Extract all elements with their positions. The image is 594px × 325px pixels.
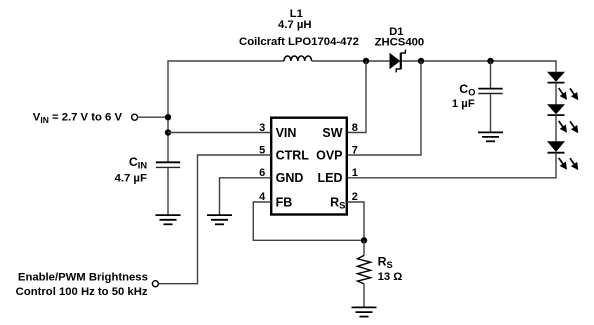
svg-text:3: 3 <box>259 122 265 134</box>
svg-text:VIN: VIN <box>276 126 297 140</box>
capacitor CO <box>478 89 502 94</box>
IC pin name GND <box>276 171 304 185</box>
svg-text:CO: CO <box>459 82 475 97</box>
wire VIN terminal to rail <box>138 116 168 118</box>
label D1 <box>389 26 403 38</box>
wire FB pin 4 loop <box>253 202 364 240</box>
terminal enable <box>152 281 158 287</box>
svg-text:7: 7 <box>352 144 358 156</box>
pin number 7 <box>352 144 358 156</box>
IC pin name RS <box>330 195 345 211</box>
wire SW pin 8 to top rail <box>347 61 366 133</box>
wire CIN bottom lead <box>167 168 169 215</box>
pin number 2 <box>352 191 358 203</box>
svg-text:13 Ω: 13 Ω <box>378 271 403 283</box>
wire LED2 to LED3 <box>555 115 557 141</box>
svg-text:8: 8 <box>352 122 358 134</box>
pin number 6 <box>259 167 265 179</box>
LED 3 <box>547 141 578 170</box>
pin number 5 <box>259 144 265 156</box>
pin number 3 <box>259 122 265 134</box>
svg-text:CIN: CIN <box>129 155 147 170</box>
wire diode to LED string top <box>402 61 556 72</box>
svg-text:LED: LED <box>318 171 343 185</box>
svg-text:1: 1 <box>352 167 358 179</box>
svg-text:RS: RS <box>330 195 345 211</box>
label enable line 2 <box>16 286 148 298</box>
label RS value 13 ohm <box>378 271 403 283</box>
wire inductor to diode <box>312 60 390 62</box>
junction dot VIN <box>165 114 171 120</box>
wire CO bottom lead <box>490 94 492 132</box>
wire pin 3 stub <box>168 132 271 134</box>
IC pin name VIN <box>276 126 297 140</box>
label VIN = 2.7 V to 6 V <box>33 112 123 125</box>
label L1 <box>290 8 303 20</box>
label D1 part ZHCS400 <box>375 37 425 49</box>
wire GND pin 6 to ground <box>220 178 272 215</box>
IC pin name OVP <box>316 148 342 162</box>
svg-text:CTRL: CTRL <box>276 148 310 162</box>
junction dot left of diode <box>363 58 369 64</box>
junction dot at CO <box>487 58 493 64</box>
svg-text:Enable/PWM Brightness: Enable/PWM Brightness <box>18 271 148 283</box>
label L1 part Coilcraft LPO1704-472 <box>239 36 359 48</box>
junction dot FB/RS <box>361 237 367 243</box>
capacitor CIN <box>156 162 180 167</box>
wire CO top lead <box>490 61 492 88</box>
label L1 value 4.7 uH <box>278 19 312 31</box>
pin number 8 <box>352 122 358 134</box>
svg-text:Control 100 Hz to 50 kHz: Control 100 Hz to 50 kHz <box>16 286 148 298</box>
label CO <box>459 82 475 97</box>
ground at RS <box>352 307 377 316</box>
svg-text:4.7 µH: 4.7 µH <box>278 19 312 31</box>
label enable line 1 <box>18 271 148 283</box>
wire OVP pin 7 to top rail <box>347 61 421 155</box>
ground at CIN <box>156 215 181 224</box>
wire LED1 to LED2 <box>555 83 557 105</box>
svg-text:SW: SW <box>322 126 342 140</box>
ground at CO <box>478 132 503 141</box>
wire top rail left segment <box>168 61 284 163</box>
svg-text:GND: GND <box>276 171 304 185</box>
junction dot right of diode <box>418 58 424 64</box>
IC pin name FB <box>276 195 293 209</box>
wire RS pin 2 down <box>347 202 364 240</box>
wire enable to CTRL pin 5 <box>159 155 271 284</box>
svg-text:RS: RS <box>378 255 393 270</box>
junction dot pin3 <box>165 129 171 135</box>
label CO value 1 uF <box>452 98 475 110</box>
inductor L1 <box>284 56 312 61</box>
pin number 1 <box>352 167 358 179</box>
LED 1 <box>547 72 578 101</box>
IC pin name CTRL <box>276 148 310 162</box>
svg-text:Coilcraft LPO1704-472: Coilcraft LPO1704-472 <box>239 36 359 48</box>
label CIN value 4.7 uF <box>115 172 147 184</box>
resistor RS <box>358 255 371 284</box>
svg-text:VIN = 2.7 V to 6 V: VIN = 2.7 V to 6 V <box>33 112 123 125</box>
IC pin name SW <box>322 126 342 140</box>
diode D1 (schottky) <box>390 50 406 73</box>
IC U1 <box>271 118 347 215</box>
svg-text:1 µF: 1 µF <box>452 98 475 110</box>
label RS <box>378 255 393 270</box>
ground at GND pin <box>207 215 232 224</box>
IC pin name LED <box>318 171 343 185</box>
wire RS top lead <box>363 240 365 255</box>
pin number 4 <box>259 191 266 203</box>
svg-text:ZHCS400: ZHCS400 <box>375 37 425 49</box>
wire RS bottom lead <box>363 284 365 308</box>
svg-text:OVP: OVP <box>316 148 342 162</box>
label CIN <box>129 155 147 170</box>
terminal VIN <box>132 114 138 120</box>
svg-text:FB: FB <box>276 195 293 209</box>
svg-text:4.7 µF: 4.7 µF <box>115 172 147 184</box>
LED 2 <box>547 104 578 133</box>
wire LED3 to LED pin 1 <box>347 153 556 178</box>
